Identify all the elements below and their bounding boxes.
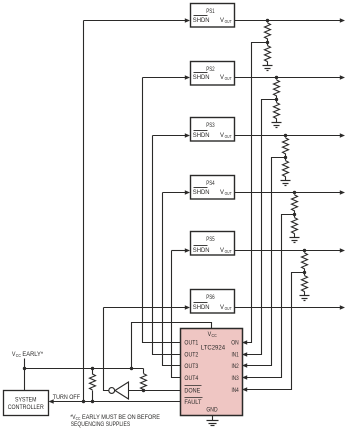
svg-text:CC: CC xyxy=(212,333,218,338)
svg-text:CC: CC xyxy=(16,353,22,358)
svg-text:SHDN: SHDN xyxy=(193,74,210,81)
svg-text:EARLY MUST BE ON BEFORE: EARLY MUST BE ON BEFORE xyxy=(82,414,161,421)
svg-text:PS2: PS2 xyxy=(206,66,215,73)
svg-text:GND: GND xyxy=(206,407,217,414)
svg-text:FAULT: FAULT xyxy=(184,399,201,406)
svg-text:SHDN: SHDN xyxy=(193,189,210,196)
svg-text:SHDN: SHDN xyxy=(193,247,210,254)
svg-text:SHDN: SHDN xyxy=(193,132,210,139)
svg-text:SHDN: SHDN xyxy=(193,304,210,311)
svg-text:OUT: OUT xyxy=(225,134,232,139)
svg-text:OUT: OUT xyxy=(225,306,232,311)
svg-text:OUT3: OUT3 xyxy=(184,363,198,370)
svg-text:PS6: PS6 xyxy=(206,294,215,301)
svg-text:SYSTEM: SYSTEM xyxy=(15,396,37,403)
svg-text:PS4: PS4 xyxy=(206,180,215,187)
svg-text:OUT: OUT xyxy=(225,249,232,254)
svg-text:IN2: IN2 xyxy=(232,363,239,370)
svg-text:DONE: DONE xyxy=(184,387,200,394)
svg-text:IN3: IN3 xyxy=(232,375,239,382)
svg-text:OUT2: OUT2 xyxy=(184,351,198,358)
svg-text:ON: ON xyxy=(231,340,238,347)
svg-text:OUT: OUT xyxy=(225,76,232,81)
svg-text:PS5: PS5 xyxy=(206,236,215,243)
svg-text:CONTROLLER: CONTROLLER xyxy=(8,404,44,411)
svg-text:TURN OFF: TURN OFF xyxy=(53,394,80,401)
svg-text:PS1: PS1 xyxy=(206,8,215,15)
svg-text:IN4: IN4 xyxy=(232,387,239,394)
svg-text:OUT: OUT xyxy=(225,19,232,24)
svg-text:PS3: PS3 xyxy=(206,122,215,129)
svg-text:SHDN: SHDN xyxy=(193,17,210,24)
svg-text:OUT4: OUT4 xyxy=(184,375,198,382)
svg-text:LTC2924: LTC2924 xyxy=(201,345,225,352)
svg-text:CC: CC xyxy=(76,416,81,421)
svg-text:OUT1: OUT1 xyxy=(184,339,198,346)
svg-text:EARLY*: EARLY* xyxy=(22,351,43,358)
svg-text:OUT: OUT xyxy=(225,191,232,196)
svg-text:SEQUENCING SUPPLIES: SEQUENCING SUPPLIES xyxy=(71,421,131,428)
svg-text:IN1: IN1 xyxy=(232,352,239,359)
